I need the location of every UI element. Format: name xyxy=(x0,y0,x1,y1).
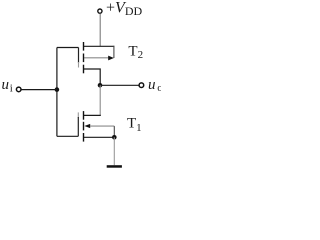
terminal input xyxy=(16,87,21,92)
node T1 source junction xyxy=(112,135,117,140)
node output junction xyxy=(98,83,103,88)
transistor T1 gate lead xyxy=(57,135,78,137)
terminal +VDD xyxy=(98,9,102,13)
transistor T1 channel tick (drain) xyxy=(83,111,85,120)
transistor T1 drain lead xyxy=(84,114,101,116)
transistor T2 bulk arrow (p-channel, pointing right) xyxy=(108,56,114,61)
transistor T1 channel tick (source) xyxy=(83,133,85,142)
transistor T1 channel tick (bulk) xyxy=(83,122,85,131)
wire gate bus xyxy=(56,48,58,137)
terminal output xyxy=(139,83,144,88)
svg-text:u: u xyxy=(2,77,10,93)
wire VDD xyxy=(99,14,101,47)
wire output xyxy=(100,84,139,86)
transistor T2 source lead xyxy=(84,45,115,47)
transistor T2 bulk-source tie wire xyxy=(113,46,115,58)
transistor T1 gate plate xyxy=(77,112,79,118)
transistor T2 channel tick (source) xyxy=(83,42,85,51)
svg-text:o: o xyxy=(157,82,161,94)
transistor T2 channel tick (drain) xyxy=(83,65,85,74)
transistor T2 drain lead xyxy=(84,69,101,85)
node input junction xyxy=(55,87,60,92)
transistor T1 source lead xyxy=(84,136,115,138)
wire to ground xyxy=(113,137,115,165)
transistor T2 channel tick (bulk) xyxy=(83,54,85,63)
wire T1 drain to output xyxy=(99,85,101,115)
transistor T2 bulk lead xyxy=(84,57,109,59)
transistor T1 bulk-source tie wire xyxy=(113,126,115,137)
wire input xyxy=(22,89,57,91)
transistor T2 gate lead xyxy=(57,47,79,49)
ground xyxy=(107,165,122,168)
transistor T1 bulk arrow (n-channel, pointing left) xyxy=(84,124,90,128)
transistor T1 bulk lead xyxy=(90,125,114,127)
svg-text:i: i xyxy=(10,82,13,94)
transistor T2 gate plate xyxy=(78,48,80,64)
svg-text:u: u xyxy=(148,77,156,93)
